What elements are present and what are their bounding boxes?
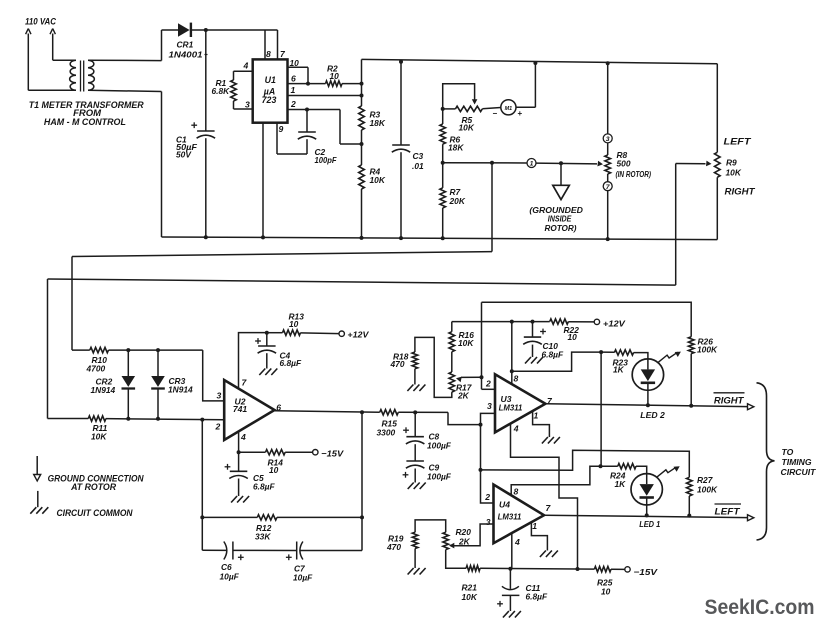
svg-text:4: 4 [240, 432, 246, 442]
svg-text:110 VAC: 110 VAC [25, 17, 56, 27]
svg-text:1N914: 1N914 [168, 384, 193, 394]
svg-text:AT ROTOR: AT ROTOR [70, 482, 116, 492]
svg-text:M1: M1 [505, 106, 513, 112]
svg-text:500: 500 [617, 159, 631, 169]
svg-text:470: 470 [386, 542, 401, 552]
svg-text:−15V: −15V [634, 567, 659, 577]
svg-text:3300: 3300 [377, 427, 396, 437]
svg-text:CIRCUIT COMMON: CIRCUIT COMMON [57, 508, 133, 518]
svg-text:1: 1 [532, 521, 537, 531]
svg-text:ROTOR): ROTOR) [545, 223, 577, 233]
svg-text:10: 10 [269, 465, 279, 475]
svg-text:6.8µF: 6.8µF [526, 591, 548, 601]
svg-text:3: 3 [486, 517, 491, 527]
svg-text:50V: 50V [176, 150, 192, 160]
svg-text:R20: R20 [456, 527, 472, 537]
svg-text:C3: C3 [413, 151, 424, 161]
svg-text:100K: 100K [697, 484, 718, 494]
svg-text:6.8K: 6.8K [212, 86, 231, 96]
svg-text:4: 4 [514, 537, 520, 547]
svg-text:TO: TO [782, 447, 794, 457]
svg-text:6.8µF: 6.8µF [542, 349, 564, 359]
svg-text:2: 2 [485, 378, 491, 388]
svg-text:LED 2: LED 2 [640, 410, 665, 420]
svg-text:−15V: −15V [321, 448, 344, 458]
svg-text:9: 9 [279, 124, 284, 134]
svg-text:+: + [518, 109, 523, 118]
svg-text:10K: 10K [370, 175, 386, 185]
svg-text:10: 10 [330, 71, 340, 81]
svg-text:RIGHT: RIGHT [714, 395, 745, 405]
svg-text:3: 3 [245, 100, 250, 110]
svg-text:33K: 33K [255, 532, 271, 542]
svg-text:6.8µF: 6.8µF [280, 358, 302, 368]
svg-text:1K: 1K [615, 479, 627, 489]
svg-text:1K: 1K [613, 365, 625, 375]
svg-text:+12V: +12V [603, 318, 626, 328]
svg-text:3: 3 [217, 390, 222, 400]
svg-text:10µF: 10µF [293, 573, 313, 583]
svg-text:U1: U1 [265, 75, 276, 85]
svg-text:10K: 10K [462, 592, 478, 602]
svg-text:10K: 10K [458, 338, 474, 348]
svg-text:100µF: 100µF [427, 440, 452, 450]
svg-text:1N914: 1N914 [91, 385, 116, 395]
svg-text:4: 4 [513, 424, 519, 434]
svg-text:CR1: CR1 [177, 40, 194, 50]
svg-text:LM311: LM311 [498, 513, 522, 522]
svg-text:−: − [493, 109, 498, 118]
svg-text:6: 6 [291, 73, 296, 83]
svg-text:R21: R21 [462, 582, 478, 592]
svg-text:8: 8 [514, 486, 519, 496]
svg-text:18K: 18K [370, 118, 386, 128]
svg-text:LM311: LM311 [499, 403, 523, 412]
svg-text:2: 2 [290, 99, 296, 109]
svg-text:100K: 100K [697, 345, 718, 355]
svg-text:10K: 10K [91, 431, 107, 441]
svg-text:20K: 20K [449, 196, 466, 206]
svg-text:LED 1: LED 1 [639, 519, 660, 529]
svg-text:4700: 4700 [86, 363, 106, 373]
svg-text:10K: 10K [726, 168, 742, 178]
svg-text:+12V: +12V [347, 329, 369, 339]
svg-text:10: 10 [568, 332, 578, 342]
svg-text:2: 2 [484, 492, 490, 502]
svg-text:SeekIC.com: SeekIC.com [705, 595, 815, 619]
svg-text:TIMING: TIMING [782, 457, 812, 467]
svg-text:3: 3 [606, 136, 610, 143]
svg-text:HAM - M CONTROL: HAM - M CONTROL [44, 117, 126, 127]
svg-text:U4: U4 [499, 500, 510, 510]
svg-text:470: 470 [390, 359, 405, 369]
svg-text:723: 723 [262, 95, 277, 105]
svg-text:6.8µF: 6.8µF [253, 481, 275, 491]
svg-text:10: 10 [601, 586, 611, 596]
svg-text:1N4001: 1N4001 [169, 49, 203, 59]
svg-text:18K: 18K [448, 143, 464, 153]
svg-text:1: 1 [534, 411, 539, 421]
svg-text:10: 10 [289, 319, 299, 329]
svg-text:3: 3 [487, 401, 492, 411]
svg-text:4: 4 [243, 61, 249, 71]
svg-text:.01: .01 [412, 161, 424, 171]
svg-text:100pF: 100pF [315, 155, 338, 165]
svg-text:10K: 10K [459, 123, 475, 133]
svg-text:R9: R9 [726, 157, 737, 167]
svg-text:100µF: 100µF [427, 471, 452, 481]
svg-text:10µF: 10µF [220, 571, 240, 581]
svg-text:10: 10 [290, 58, 300, 68]
svg-text:CIRCUIT: CIRCUIT [781, 467, 817, 477]
svg-text:2: 2 [215, 421, 221, 431]
svg-text:1: 1 [291, 85, 296, 95]
svg-text:2K: 2K [458, 537, 471, 547]
svg-text:8: 8 [266, 49, 271, 59]
svg-text:1: 1 [530, 161, 534, 168]
svg-text:(IN ROTOR): (IN ROTOR) [616, 170, 652, 179]
svg-text:LEFT: LEFT [724, 136, 753, 146]
svg-text:741: 741 [233, 404, 248, 414]
svg-text:2K: 2K [457, 391, 470, 401]
svg-text:U3: U3 [501, 394, 512, 404]
svg-text:RIGHT: RIGHT [725, 186, 757, 196]
svg-text:8: 8 [514, 373, 519, 383]
svg-text:LEFT: LEFT [715, 506, 742, 516]
